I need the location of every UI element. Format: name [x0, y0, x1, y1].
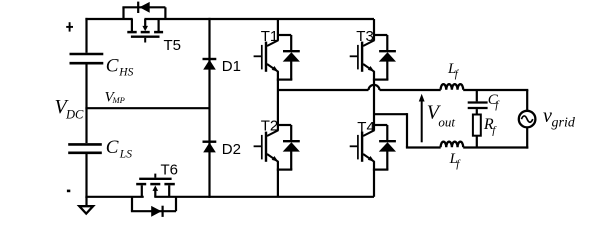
svg-text:grid: grid	[552, 116, 576, 131]
label D2	[222, 141, 241, 158]
transistor T1 (IGBT)	[254, 19, 279, 90]
node V_out measurement arrow	[419, 94, 425, 143]
svg-text:D2: D2	[222, 141, 241, 158]
svg-text:MP: MP	[112, 95, 125, 105]
label L_f (bottom)	[449, 151, 462, 170]
label V_MP	[105, 90, 125, 106]
wire: top wire from L_f to grid corner	[463, 89, 528, 91]
label C_f	[488, 92, 500, 111]
transistor T5 (MOSFET)	[127, 19, 163, 43]
label T5	[164, 37, 182, 54]
transistor T6 (MOSFET)	[136, 174, 175, 197]
wire: bottom wire from L_f to grid corner	[463, 146, 528, 148]
label L_f (top)	[447, 61, 460, 80]
label R_f	[483, 116, 497, 136]
transistor T2 (IGBT)	[254, 90, 279, 197]
label T4	[357, 119, 375, 136]
anti-parallel diode of T2	[277, 125, 300, 170]
svg-text:T4: T4	[357, 119, 375, 136]
wire: bottom output wire	[406, 146, 441, 148]
wire: left DC rail top segment (+ terminal to C_HS)	[85, 18, 87, 53]
wire: leg A output bus (T1/T2 midpoint to filter)	[278, 89, 369, 91]
diode D1	[203, 59, 217, 70]
wire: filter branch upper lead	[476, 90, 478, 101]
label v_grid	[543, 105, 576, 130]
label T6	[161, 162, 179, 179]
wire: left rail middle segment (C_HS to C_LS)	[85, 65, 87, 144]
capacitor C_HS	[70, 54, 104, 63]
svg-text:T1: T1	[261, 28, 279, 45]
label C_LS	[106, 137, 132, 160]
svg-text:T3: T3	[356, 28, 374, 45]
wire: clamp diode branch	[208, 18, 210, 198]
label: - terminal	[67, 190, 70, 193]
wire: leg B output tap	[374, 113, 407, 115]
wire: V_MP midpoint wire	[85, 107, 209, 109]
label V_out	[427, 101, 456, 129]
wire: left rail bottom segment (C_LS to - terminal)	[85, 154, 87, 198]
inductor L_f (top)	[441, 84, 464, 90]
svg-text:T5: T5	[164, 37, 182, 54]
label D1	[222, 58, 241, 75]
svg-text:out: out	[438, 115, 455, 130]
body diode of T6	[131, 197, 176, 217]
wire: lead C_f to R_f	[476, 109, 478, 114]
transistor T3 (IGBT)	[350, 19, 375, 90]
capacitor C_LS	[68, 144, 102, 152]
anti-parallel diode of T4	[373, 125, 396, 170]
svg-text:HS: HS	[118, 66, 133, 78]
label T1	[261, 28, 279, 45]
svg-text:T6: T6	[161, 162, 179, 179]
label V_DC	[55, 96, 85, 122]
diode D2	[203, 142, 217, 153]
svg-text:D1: D1	[222, 58, 241, 75]
wire: filter branch lower lead	[476, 136, 478, 148]
transistor T4 (IGBT)	[350, 90, 375, 197]
wire: grid lower lead	[526, 128, 528, 149]
svg-text:LS: LS	[119, 149, 132, 161]
svg-text:T2: T2	[261, 118, 279, 135]
wire: leg B output drop	[406, 113, 408, 147]
label: + terminal	[66, 22, 73, 31]
label T2	[261, 118, 279, 135]
body diode of T5	[122, 2, 165, 19]
anti-parallel diode of T3	[373, 35, 396, 80]
wire: bus right of hop	[380, 89, 441, 91]
label T3	[356, 28, 374, 45]
wire hop over leg B	[369, 85, 380, 90]
wire: bottom rail left of T6	[85, 196, 143, 198]
resistor R_f	[473, 115, 481, 136]
wire: top rail right of T5	[144, 18, 374, 20]
svg-text:C: C	[106, 55, 119, 76]
ground	[79, 197, 93, 214]
svg-text:DC: DC	[65, 108, 84, 122]
inductor L_f (bottom)	[441, 142, 464, 148]
wire: bottom rail right of T6	[154, 196, 374, 198]
capacitor C_f	[468, 103, 488, 109]
svg-text:C: C	[106, 137, 119, 158]
ac source v_grid	[519, 111, 536, 128]
label C_HS	[106, 55, 134, 78]
wire: top rail left of T5	[85, 18, 132, 20]
wire: grid upper lead	[526, 90, 528, 110]
anti-parallel diode of T1	[277, 35, 300, 80]
